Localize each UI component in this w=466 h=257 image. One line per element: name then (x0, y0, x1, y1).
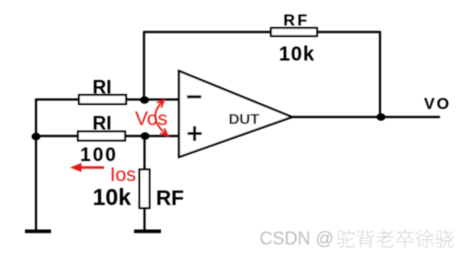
wire: feedback right vertical down to output node (379, 31, 381, 117)
wire: left rail vertical to ground (35, 99, 37, 232)
svg-text:RF: RF (156, 187, 184, 210)
resistor RF grounding body vertical (140, 170, 150, 209)
svg-text:Vos: Vos (135, 108, 168, 130)
svg-text:Ios: Ios (110, 164, 136, 186)
wire: non-inverting input horizontal (36, 135, 179, 137)
svg-text:100: 100 (80, 145, 118, 166)
node: inverting input junction dot (140, 96, 149, 104)
resistor RF feedback body (271, 28, 317, 36)
ground left (25, 230, 51, 234)
watermark CSDN chinese glyphs (337, 230, 453, 248)
node: left rail junction dot (32, 133, 41, 141)
op-amp non-inverting pin plus symbol (188, 126, 202, 141)
op-amp U1 DUT triangle (179, 71, 292, 157)
svg-text:RF: RF (283, 13, 309, 30)
wire: non-inverting node down to grounding resistor (143, 136, 145, 231)
resistor RI inverting body (79, 95, 126, 104)
svg-text:RI: RI (93, 114, 112, 135)
ground under grounding RF (134, 230, 161, 234)
svg-text:VO: VO (424, 96, 451, 113)
node: output junction dot (377, 113, 386, 121)
annotation Ios current arrow (70, 163, 104, 172)
resistor RI non-inverting body (78, 132, 125, 141)
svg-text:DUT: DUT (229, 111, 260, 128)
svg-text:CSDN @: CSDN @ (260, 229, 334, 249)
svg-text:RI: RI (93, 78, 112, 99)
op-amp inverting pin minus symbol (187, 95, 201, 98)
svg-text:10k: 10k (93, 184, 132, 210)
wire: inverting input horizontal (36, 98, 179, 100)
svg-text:10k: 10k (279, 44, 315, 66)
wire: feedback top horizontal (144, 31, 380, 33)
wire: feedback left vertical from inverting node up (143, 31, 145, 100)
annotation Vos curved arrow (155, 100, 167, 135)
wire: output (290, 116, 440, 118)
node: non-inverting input junction dot (141, 132, 150, 140)
